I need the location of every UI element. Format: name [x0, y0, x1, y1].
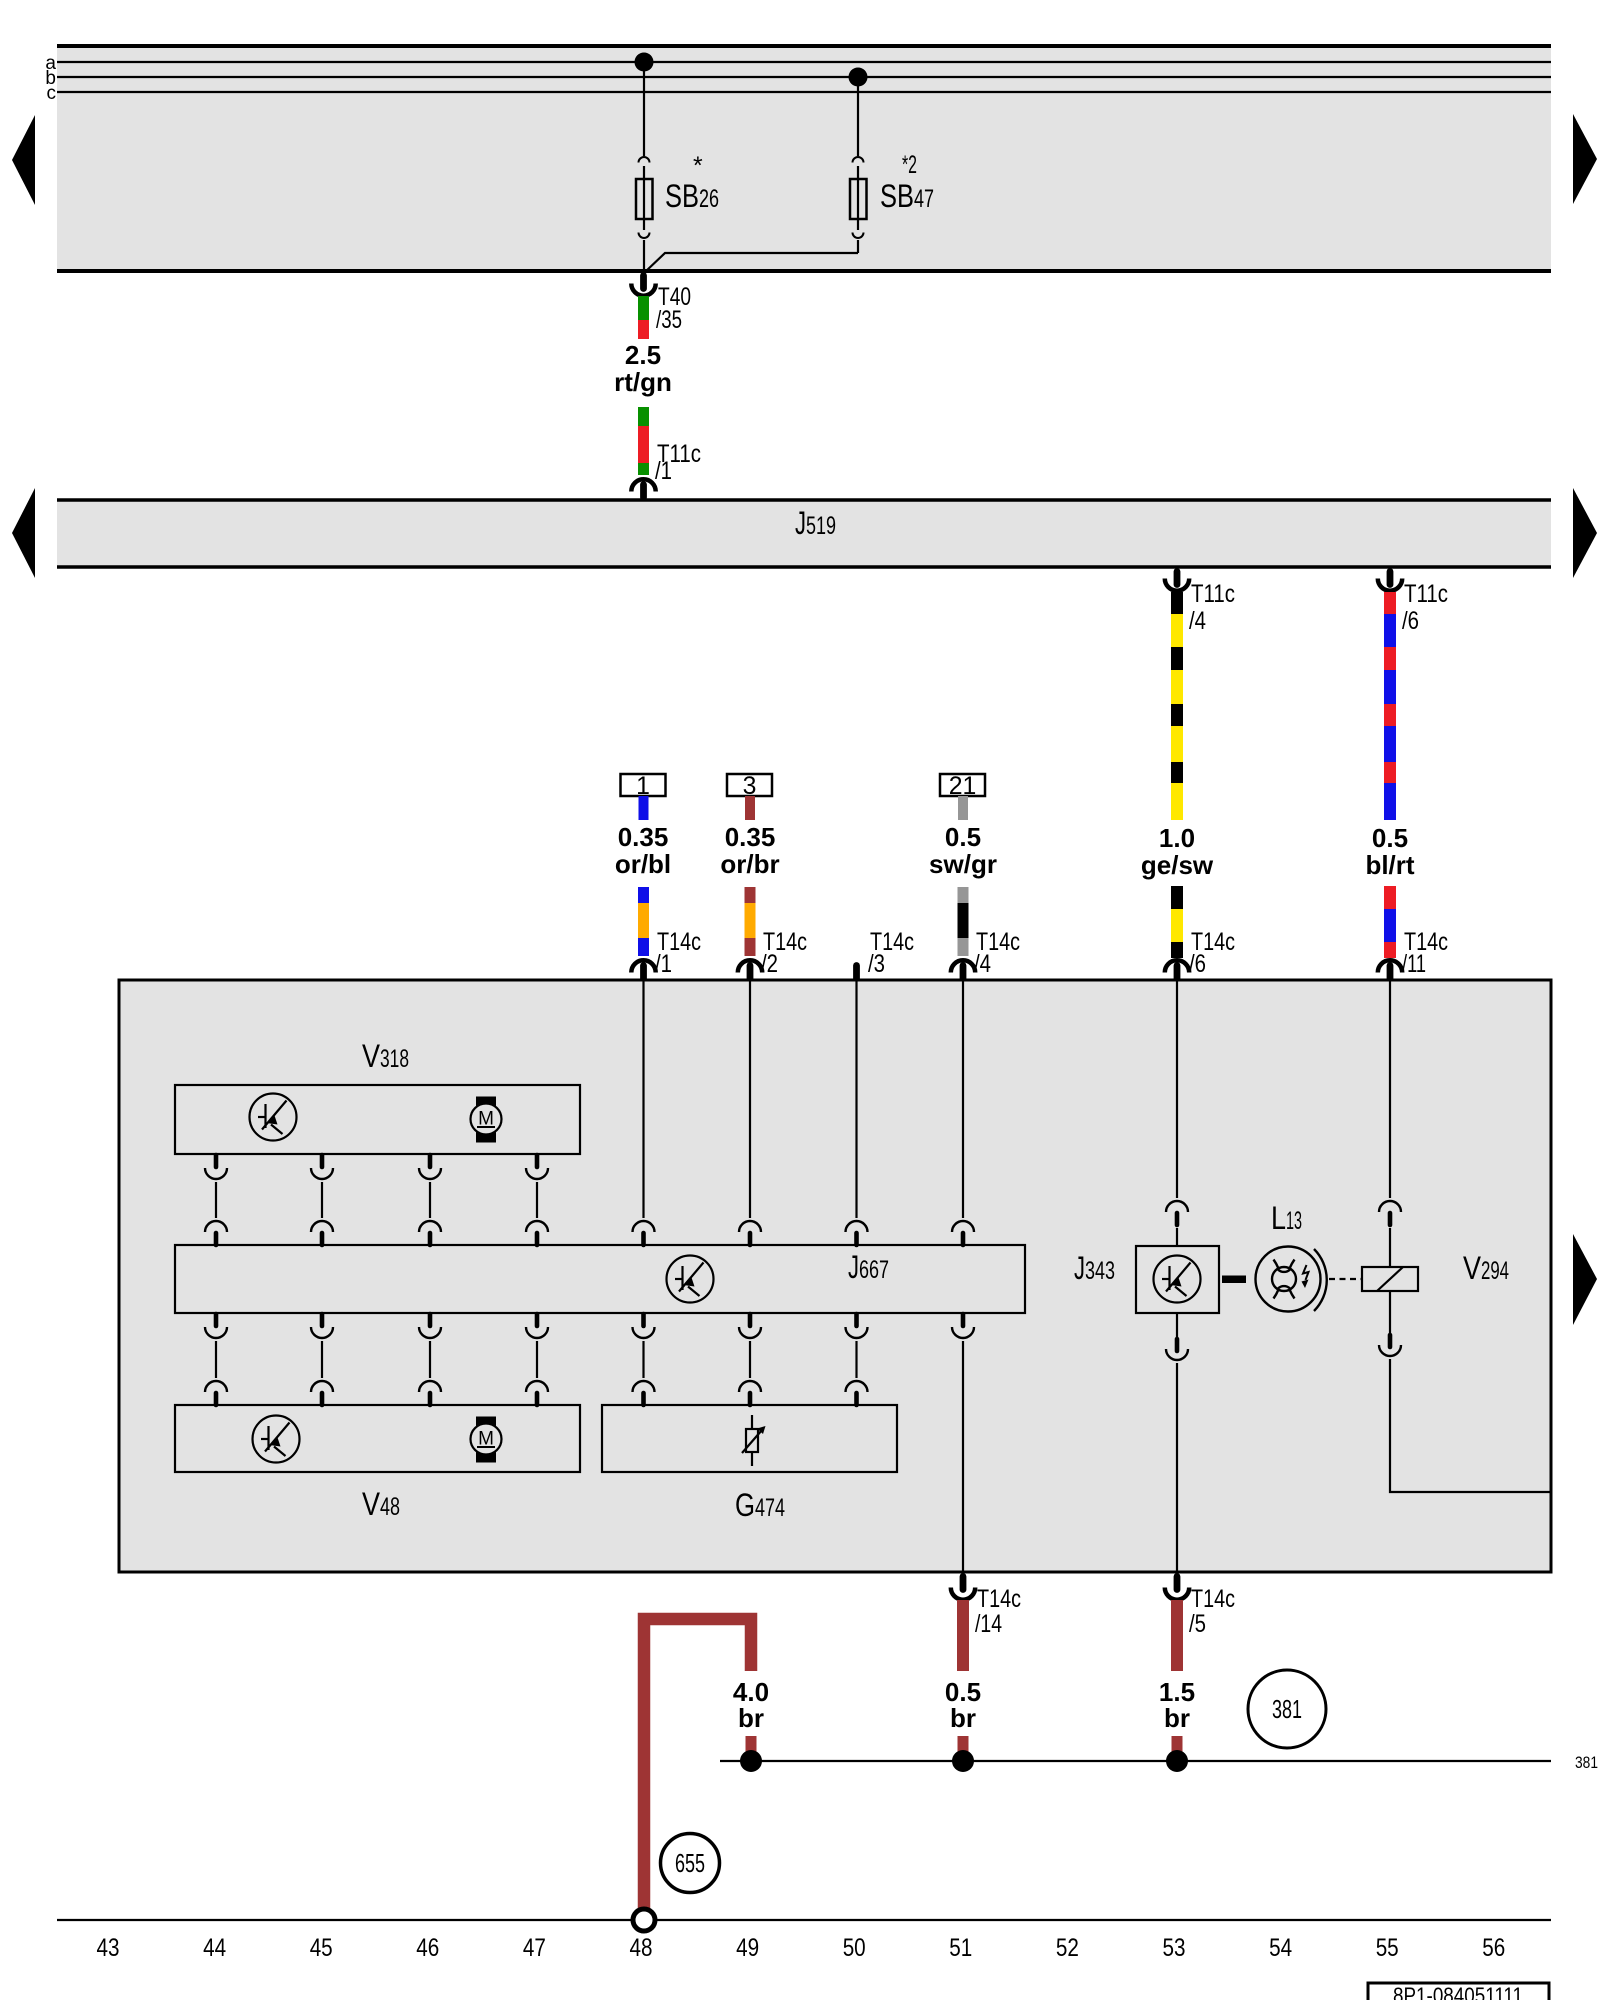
svg-text:bl/rt: bl/rt: [1365, 850, 1414, 880]
svg-text:381: 381: [1272, 1694, 1302, 1724]
svg-text:54: 54: [1269, 1935, 1292, 1962]
svg-text:ge/sw: ge/sw: [1141, 850, 1214, 880]
svg-text:/14: /14: [975, 1611, 1002, 1638]
svg-text:br: br: [950, 1703, 976, 1733]
svg-text:0.5: 0.5: [945, 822, 981, 852]
svg-text:rt/gn: rt/gn: [614, 367, 672, 397]
svg-text:or/bl: or/bl: [615, 849, 671, 879]
svg-text:0.35: 0.35: [618, 822, 669, 852]
svg-text:/11: /11: [1402, 951, 1426, 978]
svg-text:/3: /3: [868, 951, 885, 978]
svg-text:/1: /1: [655, 951, 672, 978]
svg-text:53: 53: [1163, 1935, 1186, 1962]
svg-text:sw/gr: sw/gr: [929, 849, 997, 879]
svg-text:381: 381: [1575, 1753, 1598, 1772]
svg-text:45: 45: [310, 1935, 333, 1962]
svg-text:T14c: T14c: [977, 1586, 1021, 1613]
svg-text:*2: *2: [902, 152, 917, 179]
svg-text:T14c: T14c: [1191, 1586, 1235, 1613]
svg-text:46: 46: [416, 1935, 439, 1962]
svg-text:47: 47: [523, 1935, 546, 1962]
svg-text:8P1-084051111: 8P1-084051111: [1393, 1983, 1523, 2000]
svg-text:T11c: T11c: [1404, 581, 1448, 608]
svg-text:49: 49: [736, 1935, 759, 1962]
svg-text:0.5: 0.5: [1372, 823, 1408, 853]
svg-text:/6: /6: [1189, 951, 1206, 978]
svg-text:or/br: or/br: [720, 849, 779, 879]
svg-text:3: 3: [743, 773, 757, 800]
svg-text:1: 1: [636, 773, 650, 800]
svg-text:0.35: 0.35: [725, 822, 776, 852]
svg-text:655: 655: [675, 1848, 705, 1878]
svg-text:c: c: [47, 83, 57, 104]
svg-text:br: br: [1164, 1703, 1190, 1733]
svg-text:55: 55: [1376, 1935, 1399, 1962]
svg-text:/2: /2: [761, 951, 778, 978]
svg-text:1.0: 1.0: [1159, 823, 1195, 853]
svg-text:/5: /5: [1189, 1611, 1206, 1638]
svg-text:52: 52: [1056, 1935, 1079, 1962]
svg-text:/4: /4: [1189, 608, 1206, 635]
svg-text:51: 51: [949, 1935, 972, 1962]
svg-text:43: 43: [97, 1935, 120, 1962]
svg-text:2.5: 2.5: [625, 340, 661, 370]
svg-text:44: 44: [203, 1935, 226, 1962]
svg-text:*: *: [693, 153, 703, 180]
svg-text:/35: /35: [656, 307, 682, 334]
svg-text:/4: /4: [974, 951, 991, 978]
svg-text:48: 48: [630, 1935, 653, 1962]
svg-text:56: 56: [1482, 1935, 1505, 1962]
svg-text:21: 21: [949, 773, 977, 800]
svg-text:50: 50: [843, 1935, 866, 1962]
svg-text:/1: /1: [655, 458, 672, 485]
svg-text:T11c: T11c: [1191, 581, 1235, 608]
svg-text:/6: /6: [1402, 608, 1419, 635]
svg-text:br: br: [738, 1703, 764, 1733]
